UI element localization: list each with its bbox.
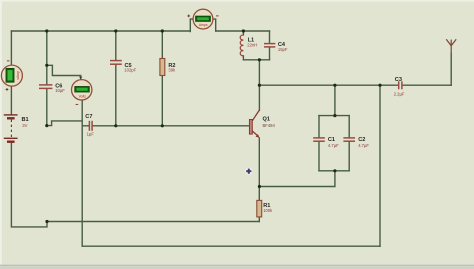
antenna AE1	[446, 39, 456, 53]
capacitor C3	[399, 81, 402, 89]
wire C3 rail right to antenna	[402, 84, 451, 86]
wire jog dot to voltmeter bottom column	[47, 121, 82, 126]
node LC bottom / collector	[258, 58, 261, 61]
node top rail / C5	[114, 29, 117, 32]
wire R2 column upper	[161, 31, 163, 59]
wire C1 branch upper	[318, 116, 320, 138]
bottom window edge band	[0, 265, 474, 267]
origin marker	[245, 168, 252, 175]
node top rail / R2	[161, 29, 164, 32]
svg-text:102pF: 102pF	[124, 67, 136, 72]
svg-text:Volts: Volts	[79, 94, 87, 98]
wire ammeter AM2 right jog	[213, 19, 216, 31]
capacitor C1	[313, 138, 325, 141]
svg-text:Q1: Q1	[263, 117, 270, 123]
wire bottom rail	[82, 245, 380, 247]
svg-text:2.2µF: 2.2µF	[394, 91, 405, 96]
wire C2 branch lower	[348, 141, 350, 170]
svg-text:C3: C3	[395, 77, 402, 83]
capacitor C7	[89, 121, 92, 131]
wire L1 stem bottom	[242, 56, 244, 60]
wire C5 column upper	[115, 31, 117, 60]
wire C4 column upper	[269, 31, 271, 43]
wire jog dot to voltmeter top	[47, 65, 81, 80]
capacitor C4	[264, 44, 275, 47]
wire C2 branch upper	[348, 116, 350, 138]
wire voltmeter bottom long column to bottom rail	[81, 100, 83, 246]
wire battery column top	[10, 31, 12, 66]
wire C1 branch lower	[318, 141, 320, 170]
svg-text:C7: C7	[85, 114, 92, 120]
inductor L1	[240, 35, 243, 56]
wire collector column	[258, 60, 260, 111]
resistor R2	[160, 59, 165, 76]
transistor Q1	[249, 120, 252, 135]
node C1C2 box top	[333, 114, 336, 117]
svg-text:4.7µF: 4.7µF	[328, 143, 339, 148]
node top rail / L1	[242, 29, 245, 32]
node C3 rail / right column	[378, 84, 381, 87]
ammeter AM2	[187, 9, 218, 29]
wire antenna stem	[450, 54, 452, 86]
wire ammeter AM2 left jog	[190, 19, 193, 32]
ammeter AM1	[1, 61, 22, 91]
node C1C2 box bottom	[333, 169, 336, 172]
wire right column from C3 dot to bottom rail	[379, 85, 381, 246]
node collector / C3 rail	[258, 84, 261, 87]
light page edges	[0, 0, 474, 2]
node C6 column / voltmeter branch	[45, 64, 48, 67]
node top rail / C6	[45, 29, 48, 32]
node base line / R2	[161, 124, 164, 127]
wire C1C2 box top rail	[319, 115, 349, 117]
capacitor C5	[110, 61, 122, 65]
svg-text:Amps: Amps	[16, 71, 20, 80]
wire R1 bottom stub	[258, 217, 260, 222]
voltmeter V1	[72, 77, 92, 105]
battery B1	[4, 115, 18, 142]
svg-text:10µF: 10µF	[55, 88, 65, 93]
node bottom-left	[45, 220, 48, 223]
svg-text:Amps: Amps	[199, 23, 208, 27]
resistor R1	[257, 200, 262, 217]
svg-text:3V: 3V	[22, 123, 27, 128]
node base line / C5	[114, 124, 117, 127]
wire C1C2 box bottom rail	[319, 170, 349, 172]
svg-text:1µF: 1µF	[87, 132, 95, 137]
capacitor C6	[39, 85, 52, 89]
wire LC tank bottom rail	[243, 59, 269, 61]
node C6 column / C7 branch	[45, 124, 48, 127]
wire C6 column lower	[46, 89, 48, 126]
svg-text:39k: 39k	[168, 67, 176, 72]
svg-text:4.7µF: 4.7µF	[358, 143, 369, 148]
svg-text:22nH: 22nH	[247, 42, 257, 47]
wire C1C2 bottom to emitter rail	[259, 171, 335, 187]
wire C6 column upper	[46, 31, 48, 84]
svg-text:100k: 100k	[263, 208, 273, 213]
wire C5 column lower	[115, 65, 117, 126]
svg-text:BF494: BF494	[263, 123, 276, 128]
wire L1 stem top	[242, 31, 244, 35]
node emitter / rail	[258, 185, 261, 188]
wire R2 column lower	[161, 76, 163, 126]
svg-text:15pF: 15pF	[278, 47, 288, 52]
wire ammeter AM1 to battery	[10, 86, 12, 114]
wire battery bottom to corner	[11, 143, 47, 227]
capacitor C2	[343, 138, 355, 141]
wire C1C2 top drop	[334, 85, 336, 115]
wire R1 bottom rail to left dot	[47, 221, 259, 223]
wire C3 rail left	[259, 84, 398, 86]
wire C4 column lower	[269, 47, 271, 60]
node C3 rail / C1C2 drop	[333, 84, 336, 87]
wire C7 left stub	[82, 125, 88, 127]
wire top rail right segment	[216, 30, 270, 32]
wire C7 right to base line	[93, 125, 250, 127]
wire top rail left segment	[11, 30, 190, 32]
wire emitter column	[258, 138, 260, 201]
